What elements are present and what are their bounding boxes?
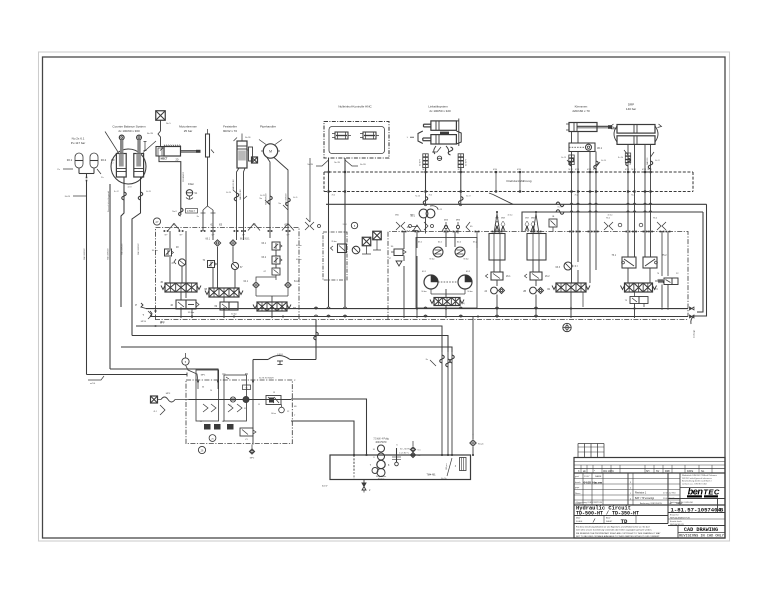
- svg-text:170117: 170117: [187, 210, 195, 213]
- tank box: [330, 455, 471, 480]
- svg-text:Werkstück- DIN ISO 2768-mK Tol: Werkstück- DIN ISO 2768-mK Toleranz: [682, 474, 717, 477]
- svg-text:Nu: Nu: [197, 216, 199, 218]
- texture labels: [114, 157, 660, 217]
- wire plate down: [197, 157, 216, 231]
- tank label: [426, 458, 452, 480]
- wire right riser 473: [472, 317, 474, 456]
- counter balance tick: [111, 160, 115, 165]
- svg-text:M 34: M 34: [625, 169, 629, 171]
- svg-text:M 34: M 34: [517, 169, 521, 171]
- pump unit box: [186, 380, 292, 444]
- svg-text:Nu 2E: Nu 2E: [245, 137, 251, 139]
- linkstilt mounts: [407, 119, 461, 147]
- svg-text:SAE100: SAE100: [646, 157, 649, 165]
- svg-text:M61: M61: [410, 215, 414, 217]
- svg-text:26.2: 26.2: [545, 276, 550, 278]
- wire cb bypass 2: [132, 177, 141, 336]
- valve 26.2: [525, 260, 551, 280]
- wire brake supply: [147, 133, 163, 151]
- svg-text:140 bar: 140 bar: [626, 107, 636, 111]
- svg-text:Nu 2E: Nu 2E: [226, 192, 232, 194]
- wire klemmen manifold: [571, 232, 596, 308]
- svg-text:Norm: Norm: [575, 492, 581, 495]
- svg-text:Nu 2B: Nu 2B: [334, 162, 340, 164]
- svg-text:30 bar: 30 bar: [231, 314, 237, 316]
- svg-text:MP1: MP1: [201, 375, 206, 377]
- svg-text:DRF: DRF: [665, 470, 670, 473]
- svg-text:63.3: 63.3: [556, 267, 561, 269]
- HNC inner box: [329, 127, 385, 154]
- svg-text:70.2: 70.2: [631, 194, 635, 196]
- svg-text:500/EN853: 500/EN853: [183, 171, 185, 182]
- dashed bus left end: [323, 172, 325, 192]
- collector line B: [522, 212, 703, 312]
- valve 46: [170, 300, 199, 314]
- svg-text:bearb: bearb: [575, 481, 581, 484]
- circled 27: [153, 218, 160, 225]
- svg-text:04.08: 04.08: [584, 481, 592, 485]
- linkstilt hoses: [432, 146, 453, 161]
- bus L4: [132, 336, 448, 353]
- svg-text:Nu 2D: Nu 2D: [146, 191, 152, 193]
- tank breather 3: [446, 458, 466, 471]
- pilot check 75.1: [612, 255, 636, 268]
- dashed bus upper: [324, 171, 693, 173]
- check row above: [396, 218, 536, 232]
- svg-text:Leckage: Leckage: [694, 329, 696, 338]
- wire col2 down: [223, 297, 225, 318]
- slant checks left: [305, 222, 321, 230]
- wire 22 down: [662, 232, 668, 308]
- wire linkstilt down: [426, 168, 461, 192]
- svg-text:⊦: ⊦: [407, 136, 408, 139]
- svg-text:Nu: Nu: [426, 359, 428, 361]
- wire drp down: [624, 144, 654, 231]
- mp3 hose: [151, 393, 189, 415]
- relief 70: [202, 260, 216, 268]
- hv 74: [621, 283, 659, 292]
- label linkstilt: [428, 105, 451, 113]
- prop valve 45: [160, 281, 201, 292]
- wire col1: [170, 231, 186, 298]
- tank top dots: [353, 454, 474, 456]
- svg-text:Pu 117 bar: Pu 117 bar: [71, 141, 85, 145]
- svg-text:30.1: 30.1: [67, 158, 73, 162]
- svg-text:SAE100R2AT: SAE100R2AT: [83, 248, 86, 260]
- svg-text:Ersatz für: Ersatz für: [670, 514, 679, 517]
- label counter balance: [112, 125, 146, 133]
- svg-text:SAE100R2AT: SAE100R2AT: [137, 243, 140, 255]
- svg-text:Har.em: Har.em: [593, 481, 603, 485]
- svg-text:nicht ohne unsere Zustimmung v: nicht ohne unsere Zustimmung verwendet o…: [576, 529, 652, 532]
- svg-text:50 - 60 Hz: 50 - 60 Hz: [400, 449, 410, 451]
- svg-text:Nu 2K: Nu 2K: [260, 195, 266, 197]
- bus P line: [135, 303, 694, 310]
- svg-text:8.8/24: 8.8/24: [277, 354, 283, 356]
- svg-text:13.07: 13.07: [584, 476, 590, 478]
- svg-text:Nu: Nu: [259, 198, 262, 200]
- box 1B: [549, 216, 557, 232]
- svg-text:Nu 2H: Nu 2H: [618, 157, 624, 159]
- svg-text:001 100%: 001 100%: [603, 470, 615, 473]
- relief 63.2: [262, 256, 302, 264]
- valve 90 spring: [389, 246, 406, 266]
- svg-text:Drehdurchführung: Drehdurchführung: [507, 179, 532, 183]
- svg-text:WE RESERVE THE PROPRIETARY RIG: WE RESERVE THE PROPRIETARY RIGHT AND COP…: [576, 532, 661, 535]
- svg-text:M69: M69: [525, 218, 529, 220]
- tank label texts: [373, 439, 410, 451]
- bus junction dots: [180, 308, 669, 318]
- left manifold box: [156, 228, 300, 320]
- svg-text:30.2: 30.2: [101, 158, 107, 162]
- brake plate: [206, 129, 215, 157]
- svg-text:M 34: M 34: [423, 169, 427, 171]
- solenoid 73: [625, 297, 648, 304]
- symbols 76: [604, 218, 666, 231]
- counter balance cylinder 1: [116, 135, 126, 177]
- drp check stack: [625, 153, 630, 163]
- valve 24: [484, 280, 504, 307]
- svg-text:M67: M67: [495, 218, 499, 220]
- svg-text:gepr: gepr: [575, 486, 580, 489]
- hv 4c: [430, 298, 465, 306]
- svg-text:Nu 15: Nu 15: [437, 209, 442, 211]
- svg-text:64.1: 64.1: [244, 281, 249, 283]
- svg-text:Nulleinhol-Kontrolle HNC: Nulleinhol-Kontrolle HNC: [338, 105, 372, 109]
- svg-text:M 34: M 34: [575, 169, 579, 171]
- wire accumulator manifold: [57, 168, 104, 198]
- check stack right: [458, 154, 467, 168]
- svg-text:41.1: 41.1: [153, 411, 157, 413]
- page sheet edge: [39, 52, 730, 541]
- manifold lambda wires: [168, 224, 294, 231]
- svg-text:40 bar: 40 bar: [507, 215, 512, 217]
- svg-text:90/32 x 70: 90/32 x 70: [223, 129, 237, 133]
- check 66.1: [206, 239, 221, 247]
- svg-text:30 bar: 30 bar: [152, 249, 158, 252]
- svg-text:DIN ISO mittel/general toleran: DIN ISO mittel/general tolerances: [682, 477, 712, 480]
- wire col3 down: [271, 311, 273, 318]
- wire P2 riser: [314, 320, 319, 360]
- svg-text:60 SVT: 60 SVT: [466, 159, 468, 166]
- klemmen cylinder: [566, 123, 612, 132]
- wire klemmen down: [567, 132, 600, 232]
- label feststeller: [223, 125, 237, 133]
- drp cylinder 1: [611, 125, 655, 134]
- svg-text:DATE: DATE: [687, 470, 694, 473]
- svg-text:26.1: 26.1: [506, 276, 511, 278]
- svg-text:Nu 2B: Nu 2B: [307, 164, 313, 166]
- valve 22: [655, 273, 679, 285]
- mid xsq 2: [373, 231, 382, 240]
- prop valve 6B: [253, 302, 296, 311]
- svg-text:61: 61: [210, 223, 214, 227]
- tank motor pump: [370, 445, 390, 480]
- svg-text:CAD DRAWING: CAD DRAWING: [684, 527, 718, 533]
- svg-text:Nu F: Nu F: [172, 211, 177, 213]
- svg-text:M 34: M 34: [458, 169, 462, 171]
- svg-text:ben: ben: [688, 486, 704, 496]
- svg-text:SAE100 R2: SAE100 R2: [239, 189, 242, 200]
- bus dashdot: [155, 320, 688, 325]
- hv 82: [547, 283, 590, 292]
- mid gauge: [352, 246, 360, 254]
- tank thermometer: [392, 445, 410, 466]
- accumulator 30.1: [67, 153, 83, 168]
- svg-text:P: P: [135, 303, 137, 307]
- bus hops: [314, 307, 538, 317]
- check 64.1: [244, 281, 260, 288]
- manifold bottom taps: [141, 310, 165, 323]
- svg-text:64.2: 64.2: [294, 281, 299, 283]
- relief 65.1: [418, 242, 443, 261]
- svg-text:SH: SH: [646, 470, 650, 473]
- cyl 26.2: [527, 234, 546, 261]
- svg-text:Nu: Nu: [278, 203, 281, 205]
- svg-text:2x 100/50 x 320: 2x 100/50 x 320: [429, 109, 451, 113]
- wire pump feed: [243, 360, 254, 390]
- circled 5b: [343, 222, 358, 228]
- wire jogs: [122, 158, 653, 206]
- tank internal dash: [353, 455, 355, 480]
- HNC dashed box: [324, 122, 389, 159]
- svg-text:Filter: Filter: [188, 182, 194, 186]
- svg-text:7,5 kW, 4 Polig: 7,5 kW, 4 Polig: [373, 439, 389, 441]
- pump unit sub boxes: [196, 370, 247, 421]
- manifold top junctions: [164, 230, 291, 236]
- wire brake drain: [159, 156, 185, 215]
- tank level 5: [410, 441, 421, 458]
- svg-text:Ersetzt durch: Ersetzt durch: [670, 520, 682, 523]
- HNC valve 2: [360, 132, 379, 139]
- wire right subgroup: [404, 232, 477, 319]
- svg-text:Nu Oil+: Nu Oil+: [441, 478, 447, 480]
- svg-text:MP2*: MP2*: [160, 323, 165, 325]
- bus L5: [121, 347, 452, 352]
- relief 65.2: [455, 242, 478, 261]
- mid xsq 1: [362, 237, 371, 246]
- pump unit ports: [259, 378, 274, 380]
- wire accum down: [86, 181, 88, 375]
- hops on collector: [424, 202, 652, 214]
- svg-text:2x 100/90 x 300: 2x 100/90 x 300: [118, 129, 140, 133]
- svg-text:MP10: MP10: [141, 321, 147, 323]
- label drp: [626, 103, 636, 111]
- svg-text:1 am 80 °C: 1 am 80 °C: [399, 453, 410, 455]
- label drehdurchfuehrung: [507, 179, 532, 183]
- svg-text:NOT TO BE USED OR MADE AVAILAB: NOT TO BE USED OR MADE AVAILABLE TO THIR…: [576, 535, 660, 538]
- svg-text:31.01: 31.01: [343, 224, 348, 226]
- svg-text:400V/50Hz: 400V/50Hz: [375, 442, 387, 444]
- wire drp manifold: [628, 232, 651, 308]
- check 64.2: [285, 281, 299, 288]
- svg-text:w/3.4: w/3.4: [90, 383, 96, 385]
- svg-text:M 34: M 34: [632, 169, 636, 171]
- klemmen check stack: [569, 155, 574, 165]
- svg-text:40 bar: 40 bar: [296, 259, 302, 261]
- dashed bus lower: [324, 191, 693, 193]
- svg-text:30 bar: 30 bar: [271, 412, 276, 415]
- svg-text:70.2: 70.2: [575, 194, 579, 196]
- label HNC: [338, 105, 372, 109]
- counter balance cylinder 2: [134, 135, 144, 177]
- right manifold box: [388, 232, 688, 320]
- svg-text:M 34: M 34: [569, 169, 573, 171]
- svg-text:75.2: 75.2: [662, 255, 667, 257]
- relief 63.1: [262, 242, 302, 250]
- svg-text:MBCT: MBCT: [161, 158, 168, 160]
- drawing border frame: [43, 57, 726, 538]
- wire fest a: [236, 231, 238, 240]
- leckage drain: [691, 316, 696, 338]
- counter balance drum: [105, 132, 156, 189]
- relief 48: [152, 247, 179, 256]
- wires through band: [426, 172, 521, 204]
- junction row right manifold: [402, 231, 671, 233]
- svg-text:90 bar: 90 bar: [421, 290, 427, 293]
- svg-text:M: M: [269, 150, 272, 154]
- cyl 26.1: [489, 234, 505, 261]
- wire HNC down: [307, 158, 366, 307]
- accumulator 30.2: [90, 153, 107, 168]
- valve 2B: [523, 280, 543, 307]
- drp side arcs: [611, 124, 662, 142]
- svg-text:Nu 2C: Nu 2C: [114, 191, 120, 193]
- svg-text:66.1: 66.1: [206, 239, 211, 241]
- svg-text:Nu 2x: Nu 2x: [558, 207, 563, 209]
- svg-text:No.: No.: [701, 470, 705, 473]
- bus T line: [142, 311, 694, 318]
- svg-text:220/160 x 70: 220/160 x 70: [572, 109, 590, 113]
- svg-text:Nu 2J: Nu 2J: [655, 160, 660, 162]
- svg-text:90 bar: 90 bar: [463, 258, 469, 261]
- svg-text:Benennung / DESCRIPTION: Benennung / DESCRIPTION: [577, 502, 603, 504]
- wire cb bypass 1: [121, 177, 124, 307]
- svg-text:70.2: 70.2: [429, 194, 433, 196]
- svg-text:surfaces acc. DIN ISO 1302: surfaces acc. DIN ISO 1302: [682, 483, 708, 485]
- wire feststeller ports: [232, 168, 247, 231]
- svg-text:63.2: 63.2: [262, 257, 267, 259]
- junctions dashed band: [327, 169, 651, 197]
- check stack left: [420, 154, 429, 168]
- svg-text:Pipehandler: Pipehandler: [260, 125, 276, 129]
- gauge 63.3: [556, 262, 578, 270]
- label pipehandler: [260, 125, 276, 129]
- svg-text:60 SVT: 60 SVT: [420, 159, 422, 166]
- svg-text:66.2 63.1: 66.2 63.1: [240, 239, 250, 241]
- label motorbremse: [179, 125, 197, 133]
- mp1 jog: [186, 365, 207, 382]
- svg-text:MP3: MP3: [166, 393, 171, 395]
- mid valve a: [331, 240, 347, 253]
- wire pump out 2: [291, 421, 354, 471]
- svg-text:75.1: 75.1: [612, 255, 617, 257]
- wire motors dashed: [438, 281, 458, 283]
- pump unit interior: [189, 380, 298, 445]
- svg-text:TM# 481: TM# 481: [426, 475, 436, 477]
- drp cylinder 2: [617, 136, 655, 145]
- linkstilt cylinder 2: [423, 132, 457, 144]
- label accumulators: [71, 137, 85, 145]
- svg-text:Nu 2G: Nu 2G: [601, 160, 607, 162]
- svg-text:A 1/2″: A 1/2″: [322, 485, 328, 488]
- svg-text:26: 26: [210, 390, 212, 392]
- wire lambda 26.2: [533, 211, 539, 233]
- dashed bus right end: [692, 172, 694, 192]
- motor 63.1r: [421, 271, 438, 293]
- bus L3: [136, 325, 442, 352]
- wire aux 310: [306, 158, 310, 222]
- gauge 67: [231, 262, 243, 269]
- svg-text:Revision 1: Revision 1: [635, 492, 647, 495]
- svg-text:Nu 26: Nu 26: [415, 196, 420, 198]
- tank drain: [322, 480, 371, 493]
- filter 91: [186, 182, 198, 199]
- svg-text:63: 63: [219, 223, 223, 227]
- label w34: [88, 376, 104, 385]
- svg-text:40 bar: 40 bar: [607, 215, 612, 217]
- wire tank risers: [426, 352, 455, 455]
- mp2 tap: [249, 445, 255, 460]
- svg-text:2B: 2B: [523, 291, 526, 293]
- collector line A: [326, 193, 707, 316]
- svg-text:70.2: 70.2: [332, 194, 336, 196]
- valve 26.1: [486, 260, 512, 280]
- svg-text:SAE100R2AT: SAE100R2AT: [107, 248, 110, 260]
- label klemmen: [572, 105, 590, 113]
- svg-text:Nu 5: Nu 5: [166, 123, 171, 125]
- svg-text:Nu 2B: Nu 2B: [147, 133, 154, 135]
- wire mid xsq: [362, 240, 381, 254]
- svg-text:40 bar: 40 bar: [296, 245, 302, 247]
- wire right manifold drops: [417, 307, 635, 318]
- svg-text:Nu76: Nu76: [65, 196, 71, 198]
- svg-text:(4): (4): [462, 303, 465, 305]
- pilot check 75.2: [643, 255, 667, 268]
- svg-text:MP2: MP2: [250, 458, 255, 460]
- klemmen gearbox: [569, 143, 603, 152]
- circled 5: [182, 353, 189, 365]
- wire col1 down: [181, 292, 192, 318]
- svg-text:SV: SV: [656, 470, 660, 473]
- check 66.2: [230, 239, 251, 247]
- motor 63.2r: [458, 271, 473, 293]
- wire col3: [256, 231, 288, 302]
- svg-text:SAE100 R2: SAE100 R2: [232, 179, 235, 190]
- svg-text:TEC: TEC: [703, 487, 720, 496]
- pipehandler motor: [259, 140, 282, 159]
- bus L1 corner: [87, 373, 188, 377]
- svg-text:Maß/: Maß/: [576, 518, 581, 520]
- svg-text:gez/: gez/: [575, 476, 580, 478]
- circled 26b: [198, 446, 205, 453]
- svg-text:30.1: 30.1: [597, 146, 603, 150]
- valve 67b: [264, 268, 280, 275]
- prop valve 68: [204, 288, 243, 297]
- svg-text:90 μm: 90 μm: [478, 444, 484, 446]
- svg-text:BAT / TP erweitigt: BAT / TP erweitigt: [635, 497, 654, 500]
- svg-text:SCALE: SCALE: [576, 520, 583, 523]
- svg-text:30 l/min: 30 l/min: [378, 478, 385, 480]
- svg-text:M 34: M 34: [493, 169, 497, 171]
- svg-text:Änderung / REVISION: Änderung / REVISION: [640, 502, 662, 505]
- hose note 170117: [172, 208, 197, 216]
- pump 10.1: [410, 206, 442, 234]
- gauge symbol MP: [156, 111, 172, 146]
- svg-text:M 34: M 34: [642, 169, 646, 171]
- svg-text:25 bar: 25 bar: [184, 129, 193, 133]
- wire pump out 1: [291, 399, 367, 455]
